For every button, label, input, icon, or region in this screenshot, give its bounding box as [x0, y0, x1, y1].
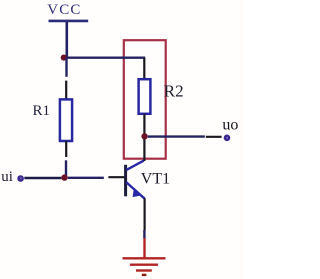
resistor R1	[60, 99, 72, 141]
wire node B to base pin	[68, 177, 104, 179]
node B junction dot	[61, 174, 67, 180]
node A junction dot	[61, 55, 67, 61]
transistor VT1 emitter diagonal with arrow	[126, 182, 145, 199]
emitter wire down	[144, 198, 146, 230]
input terminal ui	[17, 175, 24, 182]
node C junction dot	[141, 133, 147, 139]
ground bar 4	[142, 274, 147, 276]
svg-text:ui: ui	[1, 169, 13, 185]
ground stem	[143, 238, 145, 258]
pin R2 bottom	[143, 114, 145, 134]
ground bar 2	[130, 264, 158, 266]
pin R1 top	[65, 81, 67, 100]
ground bar 1	[123, 257, 166, 259]
svg-text:VT1: VT1	[141, 171, 170, 188]
pin R1 bottom	[65, 141, 67, 157]
output terminal uo	[224, 135, 231, 142]
pin R2 top	[143, 58, 145, 80]
svg-text:uo: uo	[222, 116, 238, 133]
red highlight box around R2	[124, 40, 166, 159]
wire R1 bottom to node B	[65, 160, 67, 176]
wire node C to output	[148, 135, 205, 137]
svg-text:VCC: VCC	[47, 2, 81, 18]
wire node A to R2 top corner	[63, 57, 145, 59]
base pin VT1	[108, 176, 124, 178]
wire node A down	[65, 58, 67, 77]
svg-text:R1: R1	[33, 103, 51, 119]
collector pin up to node C	[143, 139, 145, 161]
ground bar 3	[136, 269, 152, 271]
wire ui to node B	[24, 177, 61, 179]
power rail VCC bar	[49, 20, 89, 23]
resistor R2	[139, 79, 151, 114]
transistor VT1 base bar	[124, 165, 127, 197]
wire VCC bar down to node A	[66, 22, 69, 58]
transistor VT1 collector diagonal	[126, 161, 144, 170]
output pin	[206, 136, 222, 138]
svg-text:R2: R2	[164, 82, 184, 101]
